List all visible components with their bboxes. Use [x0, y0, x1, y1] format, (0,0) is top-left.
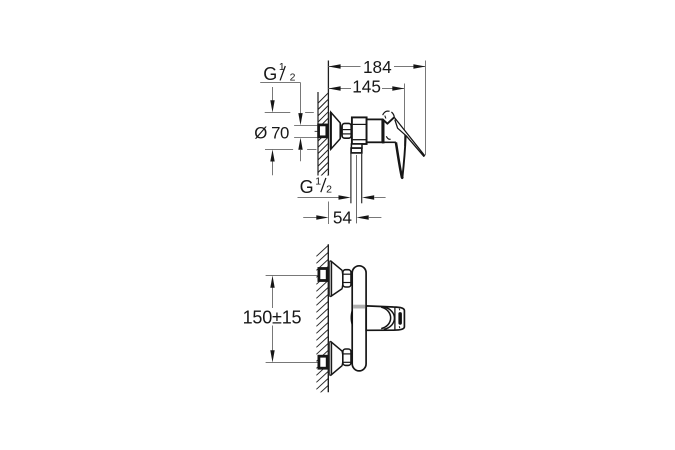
arrowhead 145 left: [328, 86, 340, 90]
stem of pipe bottom arrow: [300, 150, 302, 162]
grey joint band on capsule: [353, 305, 365, 309]
supply pipe behind wall (top view): [294, 125, 318, 127]
lower escutcheon cone (bottom view): [330, 341, 343, 376]
extension line right of 145 (to handle): [404, 84, 406, 147]
leader vertical to pipe (G 1/2 top): [300, 83, 302, 115]
arrowhead 184 left: [328, 64, 340, 68]
arrowhead pipe bottom up: [298, 138, 302, 150]
body/handle joint: [382, 119, 385, 143]
wall hatching (top view): [318, 93, 328, 185]
body capsule (bottom view): [352, 266, 366, 371]
svg-text:150±15: 150±15: [243, 307, 302, 327]
leader underline of G 1/2 top: [260, 82, 300, 84]
upper escutcheon cone (bottom view): [330, 261, 343, 297]
svg-text:54: 54: [333, 207, 353, 227]
lower union hex nut (bottom view): [343, 349, 351, 365]
arrowhead 184 right: [413, 64, 425, 68]
svg-text:145: 145: [352, 77, 381, 97]
dimension 54 left arrow: [303, 217, 317, 219]
end cap divider: [394, 307, 396, 330]
svg-text:G: G: [263, 64, 277, 84]
upper wall union square (bottom view): [319, 269, 327, 281]
escutcheon cone (top view): [331, 112, 340, 149]
cartridge housing with lever end-on (bottom view): [366, 306, 404, 330]
opposing arrow on pipe right side: [362, 195, 374, 199]
arrow up of diameter 70: [270, 150, 274, 162]
lever blade (top view, pointing down-right): [394, 117, 424, 156]
lever grip (top view, hanging down): [396, 142, 402, 177]
svg-text:184: 184: [363, 57, 392, 77]
dimension line 150 vertical: [272, 286, 274, 352]
outlet centreline: [356, 155, 358, 223]
dimension line 145: [328, 88, 404, 90]
handle neck V notch: [382, 117, 394, 124]
label G 1/2 (top left): [263, 61, 295, 84]
mixer body rear section (top view): [352, 117, 367, 144]
lower wall union square (bottom view): [319, 356, 327, 368]
extension lines for diameter 70 (top): [265, 113, 317, 150]
pipe centre dashes: [315, 130, 321, 132]
lever blade arc outer: [384, 307, 395, 330]
wall face line / extension line for 184 and 145 (top view): [327, 61, 329, 176]
lever grip end-on dark bar: [398, 312, 402, 325]
arrowhead G1/2 leader down (pipe top): [298, 113, 302, 125]
arrowhead 150 down: [270, 350, 274, 362]
arrowhead 145 right: [392, 86, 404, 90]
mixer body front section (top view): [367, 119, 383, 142]
grip notch: [386, 136, 390, 139]
upper union hex nut (bottom view): [343, 270, 351, 287]
cap face ticks: [398, 308, 401, 310]
svg-text:G: G: [300, 177, 314, 197]
wall back line (top view): [317, 92, 319, 176]
union hex nut (top view): [342, 123, 351, 138]
shower outlet step 1 (top view): [351, 144, 362, 148]
threaded wall union square (top view): [319, 125, 327, 137]
shower outlet pipe lines: [350, 153, 352, 203]
label G 1/2 (bottom of top view): [300, 176, 333, 198]
leader of bottom G 1/2 with arrow to pipe: [298, 197, 340, 199]
wall face line (bottom view): [327, 244, 329, 392]
dark crescent (lever tip seen behind body): [351, 308, 353, 327]
body bottom edge to grip: [383, 141, 396, 143]
extension line right of 184 (to lever tip): [425, 61, 427, 156]
svg-text:2: 2: [326, 184, 332, 196]
extension line bottom of 150 dimension: [266, 362, 320, 364]
svg-text:Ø 70: Ø 70: [254, 124, 289, 143]
dimension 54 right arrow: [357, 215, 369, 219]
extension line wall face for 54: [328, 202, 330, 225]
lever knob cap (top view): [383, 111, 390, 115]
svg-text:1: 1: [315, 176, 321, 188]
svg-text:2: 2: [290, 72, 296, 84]
dimension line 184: [328, 66, 425, 68]
arrowhead 150 up: [270, 276, 274, 288]
lever blade arc inner: [381, 307, 390, 328]
shower outlet nut (top view): [351, 148, 362, 153]
extension line top of 150 dimension: [266, 275, 320, 277]
arrow down of diameter 70: [272, 87, 274, 101]
